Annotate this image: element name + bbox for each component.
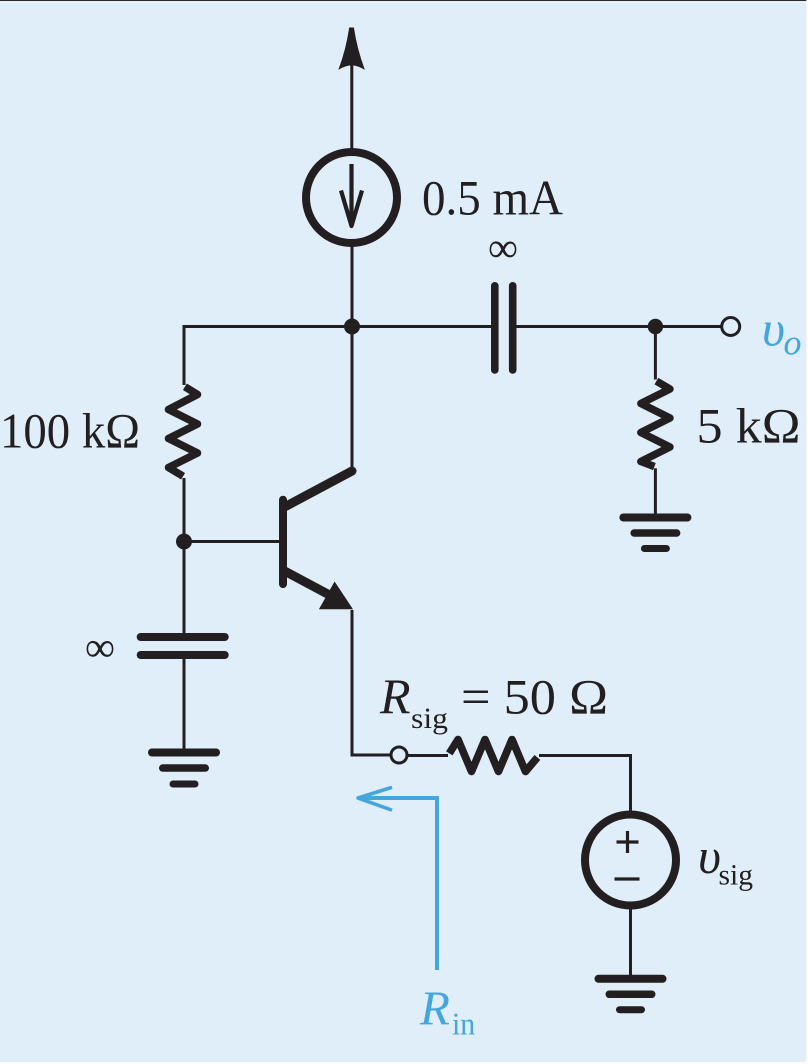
wire node A to C1 [352, 325, 491, 328]
wire C1 to node C and output terminal [517, 325, 723, 328]
wire R1 to node B and capacitor C2 [183, 478, 186, 634]
label infinity C2 [85, 625, 115, 671]
wire emitter of Q1 down to input corner [352, 610, 390, 755]
node A junction dot [344, 319, 360, 335]
ground G3 [599, 979, 663, 1010]
current source I 0.5 mA [306, 152, 397, 243]
svg-text:100 kΩ: 100 kΩ [0, 403, 140, 459]
svg-text:∞: ∞ [85, 625, 115, 671]
wire node B to base of Q1 [184, 540, 280, 543]
svg-text:in: in [452, 1007, 475, 1042]
ground G1 [152, 753, 216, 785]
capacitor C1 infinite [495, 286, 513, 370]
svg-text:0.5 mA: 0.5 mA [422, 170, 563, 226]
svg-text:= 50 Ω: = 50 Ω [461, 669, 608, 725]
node C junction dot [648, 319, 663, 334]
label 100 kOhm [0, 403, 140, 459]
wire terminal to Rsig [408, 754, 448, 757]
wire C2 to ground G1 [183, 659, 186, 749]
svg-text:5 kΩ: 5 kΩ [697, 398, 801, 454]
label vo [762, 301, 802, 363]
svg-text:o: o [784, 323, 802, 363]
label infinity C1 [488, 226, 518, 272]
node B junction dot [176, 534, 192, 550]
wire supply arrow shaft [350, 62, 353, 150]
supply current direction arrowhead [338, 28, 365, 70]
capacitor C2 infinite [141, 637, 225, 655]
svg-text:υ: υ [698, 828, 721, 884]
svg-text:∞: ∞ [488, 226, 518, 272]
svg-text:υ: υ [762, 301, 785, 357]
wire Rsig to vsig source [539, 756, 631, 813]
label Rin [419, 981, 475, 1042]
input terminal open circle [391, 747, 407, 763]
label vsig [698, 828, 753, 892]
ground G2 [623, 518, 687, 549]
label Rsig = 50 Ohm [379, 668, 608, 735]
resistor R1 100 kOhm [169, 387, 198, 477]
wire R2 to ground G2 [654, 468, 657, 514]
voltage source vsig [585, 815, 676, 906]
Rin measurement arrow (blue) [358, 787, 438, 970]
output terminal open circle [722, 318, 740, 336]
svg-text:R: R [419, 981, 450, 1036]
resistor R2 5 kOhm [641, 381, 670, 467]
wire node C to R2 [654, 327, 657, 380]
wire collector of Q1 to node A [351, 327, 354, 472]
label 5 kOhm [697, 398, 801, 454]
wire node A to left corner [184, 327, 352, 386]
label 0.5 mA [422, 170, 563, 226]
svg-text:sig: sig [719, 859, 754, 892]
wire vsig to ground G3 [629, 905, 632, 975]
resistor Rsig 50 Ohm [449, 740, 537, 772]
wire current source to node A [351, 243, 354, 327]
svg-text:R: R [379, 668, 411, 724]
transistor Q1 [283, 471, 353, 609]
svg-text:sig: sig [411, 702, 448, 735]
